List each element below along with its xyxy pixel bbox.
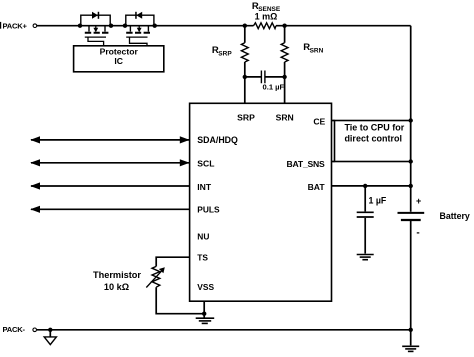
- svg-text:0.1 µF: 0.1 µF: [263, 83, 285, 92]
- svg-text:+: +: [416, 196, 421, 206]
- svg-text:direct control: direct control: [344, 133, 402, 143]
- svg-text:NU: NU: [197, 231, 209, 241]
- svg-text:1 mΩ: 1 mΩ: [255, 11, 278, 21]
- svg-text:SRP: SRP: [237, 112, 255, 122]
- svg-text:CE: CE: [313, 116, 325, 126]
- svg-text:Tie to CPU for: Tie to CPU for: [344, 123, 404, 133]
- svg-text:SDA/HDQ: SDA/HDQ: [197, 135, 238, 145]
- svg-text:Battery: Battery: [440, 211, 470, 221]
- svg-text:SCL: SCL: [197, 159, 214, 169]
- svg-text:1 µF: 1 µF: [369, 195, 387, 205]
- svg-text:IC: IC: [114, 56, 123, 66]
- svg-text:INT: INT: [197, 182, 212, 192]
- svg-text:SRN: SRN: [310, 48, 324, 55]
- svg-text:-: -: [416, 228, 419, 239]
- svg-text:SRP: SRP: [218, 51, 232, 58]
- svg-text:BAT: BAT: [308, 182, 326, 192]
- svg-text:BAT_SNS: BAT_SNS: [287, 159, 326, 169]
- svg-text:TS: TS: [197, 253, 208, 263]
- svg-text:PACK-: PACK-: [3, 325, 26, 334]
- svg-text:PULS: PULS: [197, 205, 220, 215]
- svg-text:SRN: SRN: [276, 112, 294, 122]
- svg-text:Thermistor: Thermistor: [93, 270, 141, 280]
- svg-text:VSS: VSS: [197, 282, 214, 292]
- svg-text:PACK+: PACK+: [3, 21, 28, 30]
- svg-text:10 kΩ: 10 kΩ: [104, 282, 129, 292]
